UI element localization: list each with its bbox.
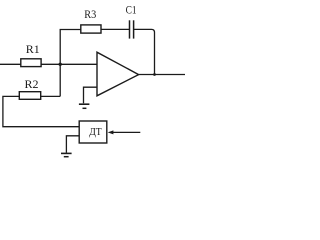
svg-text:R3: R3	[84, 7, 96, 21]
resistor R2	[19, 92, 40, 100]
resistor R3	[81, 25, 101, 33]
svg-text:ДТ: ДТ	[89, 126, 102, 138]
svg-text:R2: R2	[25, 77, 39, 91]
wire: op-amp output	[139, 74, 185, 76]
arrowhead	[108, 130, 114, 134]
capacitor C1	[130, 20, 134, 38]
wire: C1 to right vertical drop	[134, 29, 155, 74]
sensor box ДТ	[79, 121, 107, 143]
wire: R3 to C1	[101, 28, 129, 30]
wire: non-inverting input to ground	[84, 87, 98, 103]
svg-text:R1: R1	[26, 42, 40, 56]
wire: main input line to op-amp inverting input	[0, 63, 97, 65]
resistor R1	[21, 59, 41, 67]
node: junction dot at output/feedback	[153, 73, 156, 76]
node: junction dot at input	[59, 63, 62, 66]
ground (sensor)	[61, 153, 72, 156]
op-amp U1	[97, 52, 139, 96]
ground (op-amp)	[79, 104, 90, 108]
svg-text:C1: C1	[126, 2, 137, 16]
wire: feedback vertical + top run to R3	[60, 30, 81, 97]
wire: sensor to ground	[66, 136, 79, 153]
wire: arrow input into sensor	[113, 131, 141, 133]
wire: R2 branch (junction down to R2, left and down to sensor)	[3, 96, 79, 126]
